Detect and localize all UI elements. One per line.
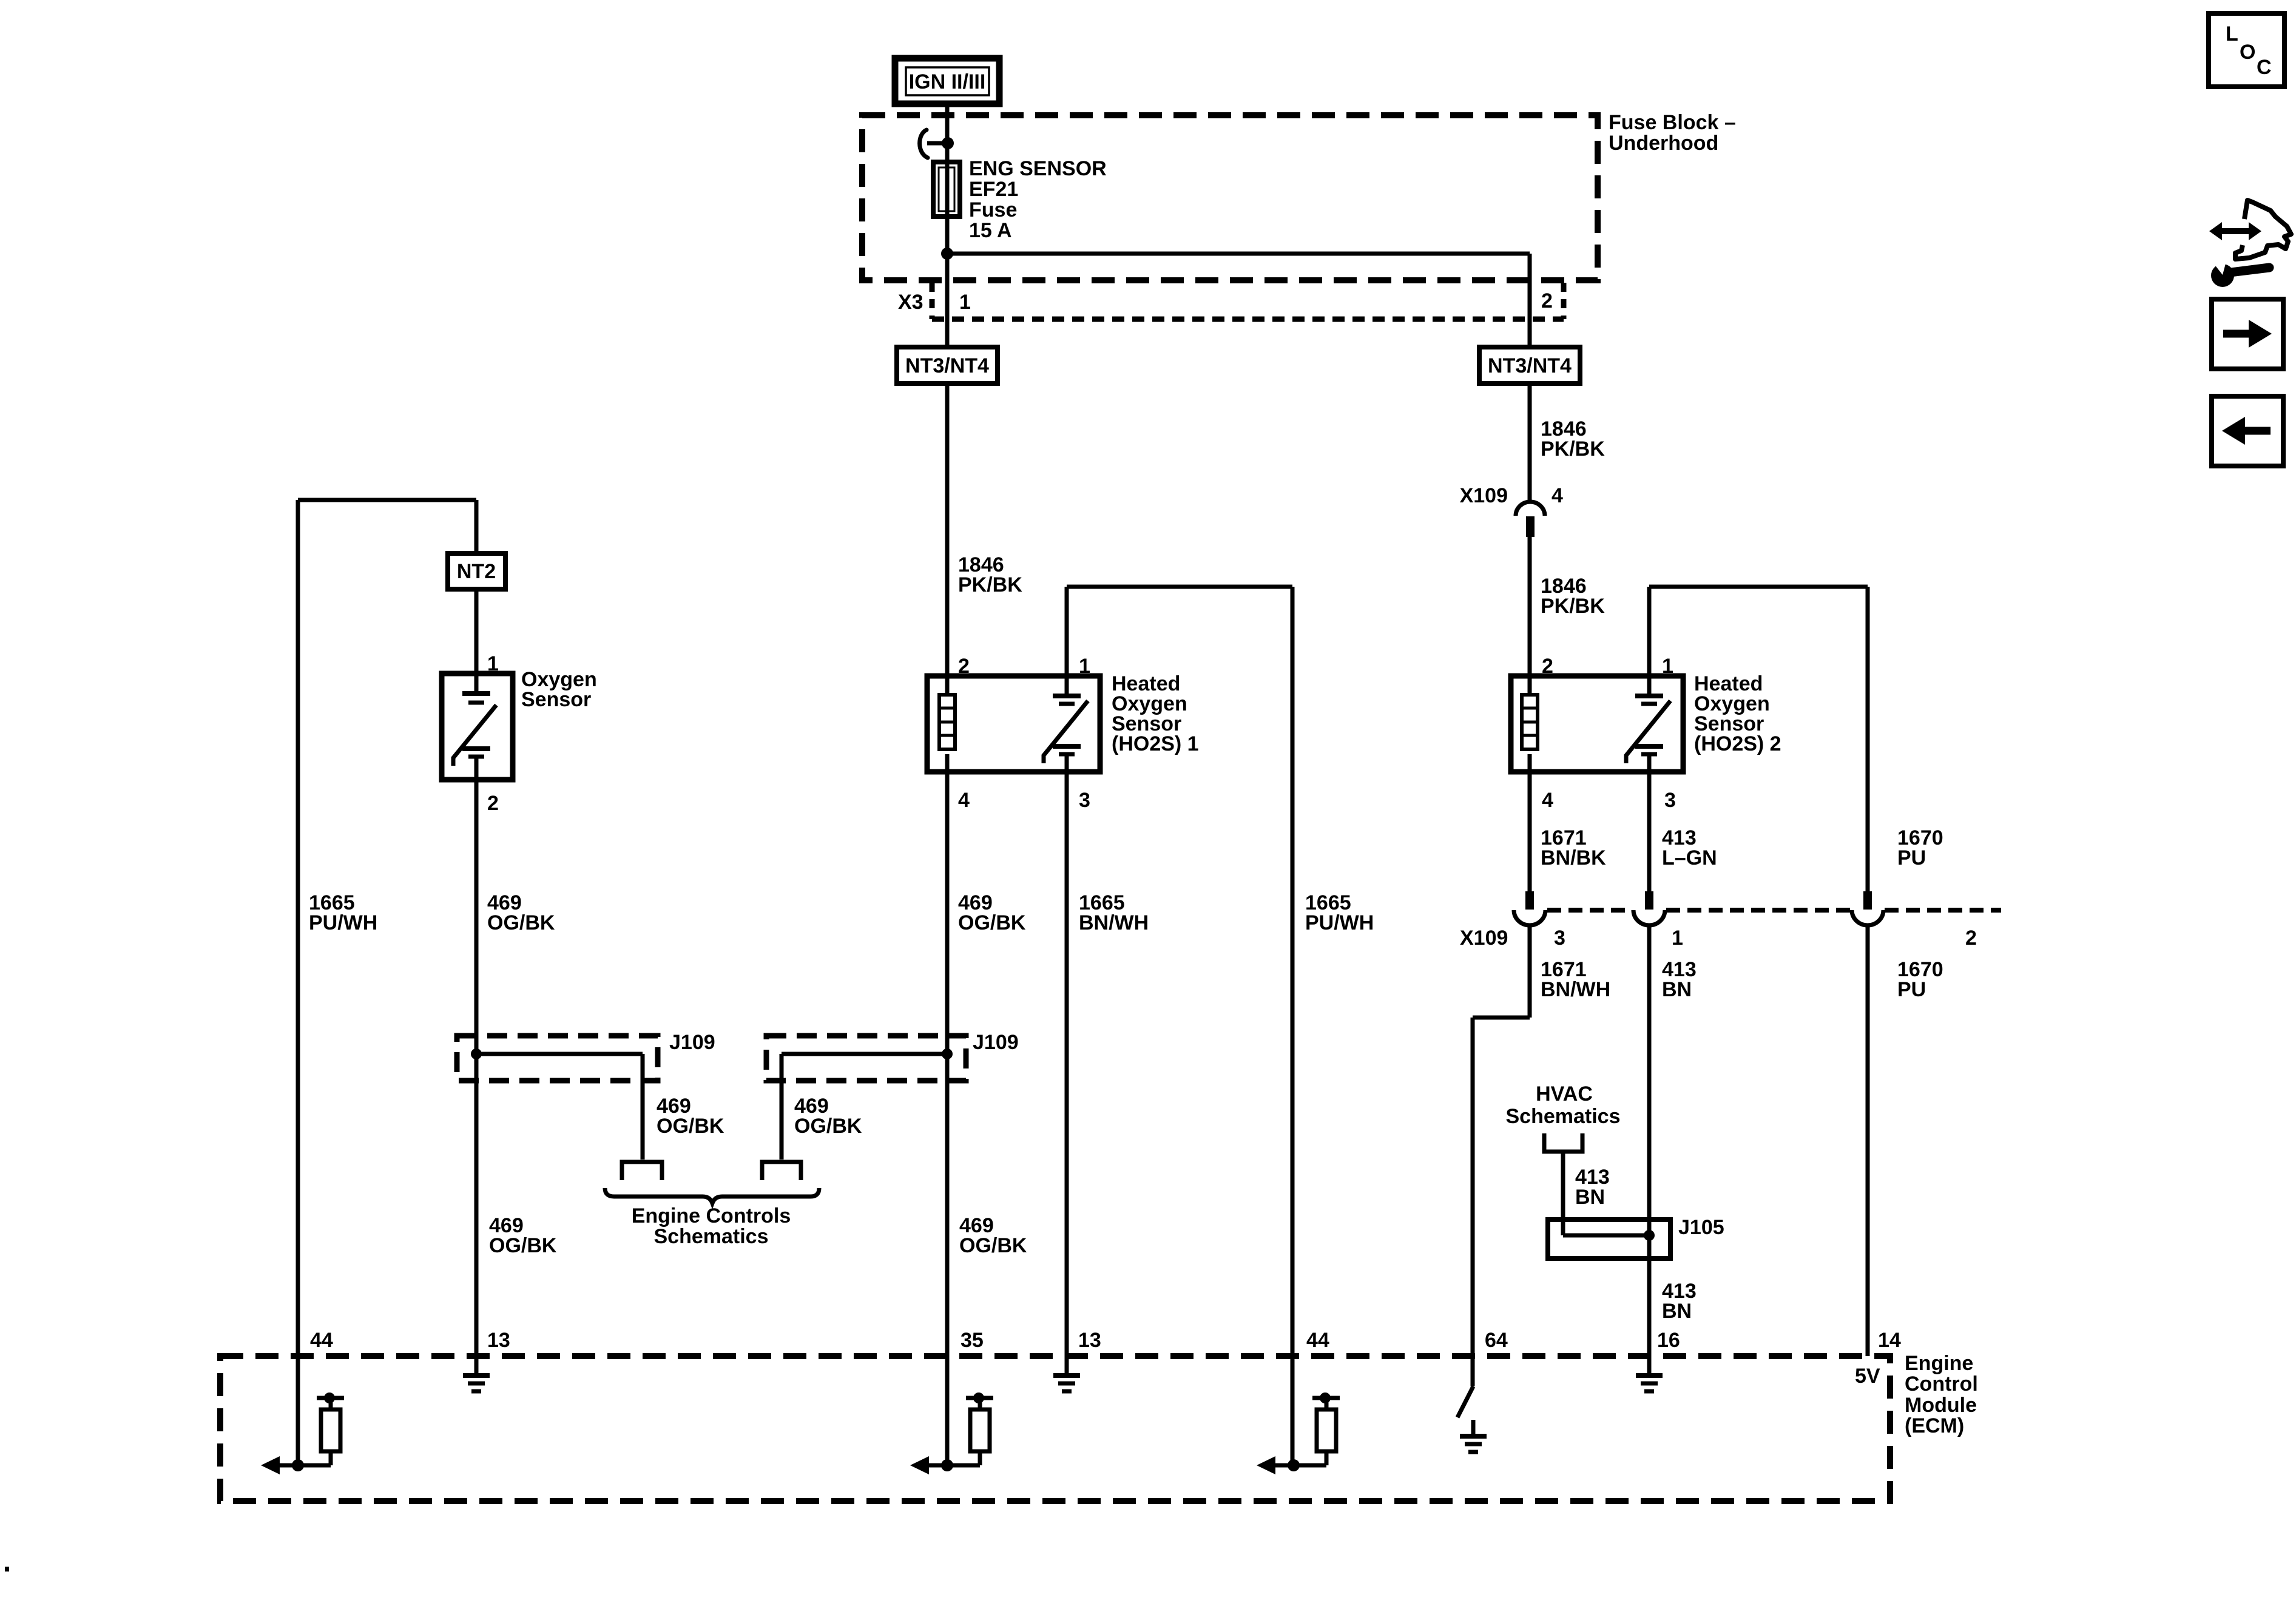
svg-text:Control: Control bbox=[1905, 1372, 1978, 1396]
svg-text:HVAC: HVAC bbox=[1536, 1082, 1593, 1106]
svg-text:14: 14 bbox=[1878, 1329, 1901, 1352]
svg-text:1: 1 bbox=[1079, 655, 1090, 678]
svg-text:C: C bbox=[2257, 56, 2272, 79]
svg-text:BN/WH: BN/WH bbox=[1079, 911, 1149, 934]
svg-text:3: 3 bbox=[1554, 927, 1565, 950]
svg-text:Schematics: Schematics bbox=[654, 1225, 769, 1248]
svg-text:NT3/NT4: NT3/NT4 bbox=[905, 354, 989, 377]
svg-text:15 A: 15 A bbox=[969, 219, 1012, 242]
svg-text:5V: 5V bbox=[1855, 1365, 1880, 1388]
svg-text:1: 1 bbox=[959, 291, 971, 314]
svg-text:Schematics: Schematics bbox=[1506, 1105, 1621, 1128]
svg-text:BN: BN bbox=[1662, 1300, 1692, 1323]
svg-text:PK/BK: PK/BK bbox=[1541, 595, 1605, 618]
svg-text:PU/WH: PU/WH bbox=[309, 911, 377, 934]
svg-text:PU/WH: PU/WH bbox=[1305, 911, 1374, 934]
svg-text:X109: X109 bbox=[1460, 484, 1508, 507]
svg-text:4: 4 bbox=[958, 789, 970, 812]
svg-text:OG/BK: OG/BK bbox=[958, 911, 1026, 934]
svg-text:BN: BN bbox=[1575, 1186, 1605, 1209]
svg-text:1: 1 bbox=[1672, 927, 1683, 950]
svg-text:PU: PU bbox=[1897, 846, 1926, 869]
svg-text:13: 13 bbox=[1078, 1329, 1101, 1352]
svg-text:Module: Module bbox=[1905, 1394, 1977, 1417]
svg-text:BN: BN bbox=[1662, 978, 1692, 1001]
svg-text:PK/BK: PK/BK bbox=[1541, 437, 1605, 461]
svg-text:2: 2 bbox=[1542, 655, 1553, 678]
svg-text:Fuse: Fuse bbox=[969, 198, 1017, 221]
svg-text:2: 2 bbox=[1965, 927, 1977, 950]
svg-text:X109: X109 bbox=[1460, 927, 1508, 950]
svg-text:OG/BK: OG/BK bbox=[657, 1115, 724, 1138]
svg-text:Engine: Engine bbox=[1905, 1352, 1973, 1375]
svg-text:PU: PU bbox=[1897, 978, 1926, 1001]
svg-text:O: O bbox=[2240, 41, 2255, 64]
svg-text:1: 1 bbox=[487, 652, 499, 675]
svg-text:4: 4 bbox=[1551, 484, 1563, 507]
svg-text:64: 64 bbox=[1485, 1329, 1508, 1352]
svg-text:BN/WH: BN/WH bbox=[1541, 978, 1610, 1001]
svg-text:NT3/NT4: NT3/NT4 bbox=[1488, 354, 1572, 377]
svg-text:3: 3 bbox=[1079, 789, 1090, 812]
svg-text:35: 35 bbox=[961, 1329, 984, 1352]
svg-text:IGN II/III: IGN II/III bbox=[909, 70, 986, 93]
svg-text:16: 16 bbox=[1657, 1329, 1680, 1352]
svg-text:(HO2S) 1: (HO2S) 1 bbox=[1112, 732, 1199, 755]
svg-text:L–GN: L–GN bbox=[1662, 846, 1717, 869]
svg-text:X3: X3 bbox=[898, 291, 923, 314]
svg-text:OG/BK: OG/BK bbox=[959, 1234, 1027, 1257]
svg-text:44: 44 bbox=[1306, 1329, 1329, 1352]
svg-text:OG/BK: OG/BK bbox=[794, 1115, 862, 1138]
svg-text:L: L bbox=[2226, 22, 2238, 46]
svg-text:OG/BK: OG/BK bbox=[489, 1234, 557, 1257]
svg-text:(HO2S) 2: (HO2S) 2 bbox=[1694, 732, 1781, 755]
svg-text:44: 44 bbox=[310, 1329, 333, 1352]
svg-text:PK/BK: PK/BK bbox=[958, 573, 1022, 596]
svg-text:1: 1 bbox=[1662, 655, 1673, 678]
svg-text:Fuse Block –: Fuse Block – bbox=[1609, 111, 1736, 134]
svg-text:2: 2 bbox=[487, 792, 499, 815]
svg-text:J105: J105 bbox=[1678, 1216, 1724, 1239]
svg-text:J109: J109 bbox=[669, 1031, 715, 1054]
svg-text:2: 2 bbox=[1541, 289, 1553, 312]
svg-text:ENG SENSOR: ENG SENSOR bbox=[969, 157, 1107, 180]
svg-text:BN/BK: BN/BK bbox=[1541, 846, 1606, 869]
svg-text:(ECM): (ECM) bbox=[1905, 1414, 1964, 1437]
svg-text:13: 13 bbox=[487, 1329, 510, 1352]
svg-text:J109: J109 bbox=[973, 1031, 1019, 1054]
svg-text:OG/BK: OG/BK bbox=[487, 911, 555, 934]
svg-text:4: 4 bbox=[1542, 789, 1553, 812]
svg-text:EF21: EF21 bbox=[969, 178, 1018, 201]
svg-text:2: 2 bbox=[958, 655, 970, 678]
svg-text:3: 3 bbox=[1664, 789, 1676, 812]
svg-text:Underhood: Underhood bbox=[1609, 132, 1718, 155]
svg-text:Engine Controls: Engine Controls bbox=[632, 1204, 791, 1227]
svg-text:Sensor: Sensor bbox=[521, 688, 591, 711]
svg-text:NT2: NT2 bbox=[457, 560, 496, 583]
